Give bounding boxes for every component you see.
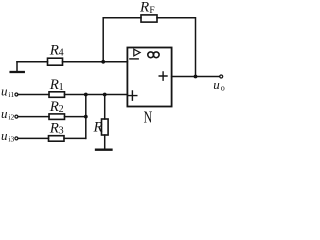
junction at row1 and R branch	[103, 93, 107, 97]
node terminal ui1	[15, 93, 18, 96]
node terminal ui2	[15, 115, 18, 118]
op-amp U1 box	[127, 48, 171, 107]
wire R3 to bus	[64, 137, 86, 139]
wire input row 3	[18, 137, 48, 139]
svg-text:4: 4	[59, 48, 64, 59]
wire R to ground	[104, 135, 106, 149]
svg-text:i2: i2	[8, 113, 14, 122]
svg-text:R: R	[49, 121, 59, 137]
svg-text:R: R	[49, 99, 59, 115]
op-amp infinity symbol	[148, 52, 154, 58]
wire R2 to bus	[65, 116, 86, 118]
svg-text:i3: i3	[8, 134, 14, 143]
svg-text:i1: i1	[8, 90, 14, 99]
wire bus vertical joining rows	[85, 95, 87, 139]
svg-text:F: F	[149, 6, 154, 16]
op-amp non-inverting input plus mark	[128, 91, 137, 100]
svg-text:R: R	[49, 77, 59, 93]
svg-text:u: u	[1, 128, 8, 143]
junction at inverting input and feedback	[101, 60, 105, 64]
resistor RF	[141, 15, 157, 22]
svg-text:u: u	[1, 106, 8, 121]
svg-text:3: 3	[59, 126, 64, 137]
ground (left)	[16, 62, 18, 72]
wire input row 1	[18, 94, 49, 96]
resistor R4	[48, 58, 63, 65]
svg-text:R: R	[139, 0, 149, 15]
svg-text:R: R	[49, 43, 59, 59]
wire inverting input from ground to R4	[17, 61, 48, 63]
wire feedback top left segment	[103, 18, 141, 62]
svg-text:u: u	[213, 77, 220, 92]
svg-text:1: 1	[59, 82, 64, 93]
junction at row1 and bus	[84, 93, 88, 97]
junction at feedback and output	[194, 75, 198, 79]
node terminal ui3	[15, 137, 18, 140]
wire input row 2	[18, 116, 49, 118]
svg-text:N: N	[144, 108, 153, 127]
op-amp output plus mark	[159, 72, 167, 80]
op-amp ideal triangle symbol	[134, 49, 140, 56]
wire output	[172, 76, 220, 78]
resistor R3	[49, 136, 65, 142]
wire branch to grounded resistor R	[104, 95, 106, 120]
svg-text:u: u	[1, 84, 8, 99]
node terminal uo	[220, 75, 223, 78]
resistor R2	[49, 114, 65, 120]
resistor R1	[49, 92, 65, 98]
wire feedback top right segment	[157, 18, 196, 77]
svg-text:2: 2	[59, 104, 64, 115]
junction at row2 and bus	[84, 115, 88, 119]
svg-text:o: o	[221, 83, 225, 92]
svg-text:R: R	[93, 120, 103, 136]
resistor R	[102, 119, 109, 135]
op-amp inverting input minus mark	[130, 58, 138, 60]
ground (bottom)	[96, 149, 112, 151]
wire R1 to op-amp non-inverting input	[65, 94, 128, 96]
wire R4 to op-amp inverting input	[63, 61, 128, 63]
